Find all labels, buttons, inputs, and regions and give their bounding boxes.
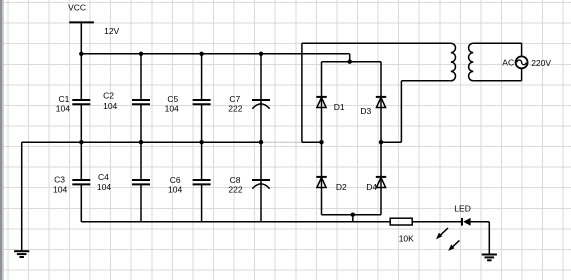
capacitor C6 104 xyxy=(168,142,211,222)
capacitor C3 104 xyxy=(53,142,90,222)
svg-text:222: 222 xyxy=(228,104,242,114)
svg-text:D1: D1 xyxy=(334,102,345,112)
left window edge strip xyxy=(0,0,2,280)
capacitor C2 104 xyxy=(103,54,150,142)
junction bridge top rail xyxy=(348,60,352,64)
diode D2 xyxy=(316,177,347,192)
wire bridge right rail xyxy=(380,62,382,215)
junction top bus / C1 xyxy=(79,52,83,56)
svg-text:104: 104 xyxy=(168,184,182,194)
wire bottom bus xyxy=(81,215,390,222)
capacitor C8 222 (polarized) xyxy=(228,142,270,222)
wire resistor to LED xyxy=(412,221,462,223)
junction top bus / C7 xyxy=(259,52,263,56)
wire bridge bottom rail xyxy=(322,214,382,216)
svg-text:10K: 10K xyxy=(399,233,414,243)
capacitor C5 104 xyxy=(165,54,211,142)
label 12V node xyxy=(104,26,119,36)
junction mid bus / C7 xyxy=(259,140,263,144)
svg-text:VCC: VCC xyxy=(68,2,86,12)
junction top bus / C2 xyxy=(139,52,143,56)
LED light arrow 2 xyxy=(448,240,459,251)
svg-text:C6: C6 xyxy=(170,175,181,185)
junction mid bus / C1 xyxy=(79,140,83,144)
ground (right) xyxy=(482,255,497,261)
ground (left) xyxy=(14,251,29,257)
wire mid bus xyxy=(22,141,322,143)
power flag VCC xyxy=(68,2,94,22)
svg-text:C8: C8 xyxy=(230,175,241,185)
svg-text:AC: AC xyxy=(502,57,514,67)
resistor 10K xyxy=(390,218,414,243)
capacitor C7 222 (polarized) xyxy=(228,54,270,142)
svg-text:C1: C1 xyxy=(59,94,70,104)
svg-text:12V: 12V xyxy=(104,26,119,36)
wire primary loop xyxy=(473,43,521,81)
svg-text:C4: C4 xyxy=(98,172,109,182)
junction mid bus / bridge left rail xyxy=(319,140,323,144)
svg-text:104: 104 xyxy=(103,101,117,111)
svg-text:LED: LED xyxy=(454,203,471,213)
wire bridge left rail xyxy=(321,62,323,215)
svg-text:C5: C5 xyxy=(167,94,178,104)
junction bridge bottom rail xyxy=(351,213,355,217)
svg-text:C3: C3 xyxy=(54,175,65,185)
svg-text:D2: D2 xyxy=(336,182,347,192)
transformer T1 secondary winding xyxy=(451,43,456,81)
wire top bus xyxy=(81,54,349,62)
junction top bus / C5 xyxy=(199,52,203,56)
svg-text:222: 222 xyxy=(228,184,242,194)
svg-text:104: 104 xyxy=(165,104,179,114)
svg-text:104: 104 xyxy=(97,182,111,192)
svg-text:104: 104 xyxy=(53,185,67,195)
wire left ground drop xyxy=(21,142,23,251)
svg-text:C2: C2 xyxy=(103,91,114,101)
svg-text:220V: 220V xyxy=(531,58,551,68)
junction mid bus / C2 xyxy=(139,140,143,144)
diode D4 xyxy=(366,177,386,192)
wire secondary top (mid bus to transformer) xyxy=(302,43,451,142)
svg-text:104: 104 xyxy=(56,104,70,114)
diode D3 xyxy=(360,97,386,116)
capacitor C1 104 xyxy=(56,54,91,142)
wire secondary bottom (right rail to transformer) xyxy=(381,81,451,142)
diode D1 xyxy=(316,97,345,112)
transformer T1 primary winding xyxy=(469,43,474,81)
junction mid bus / C5 xyxy=(199,140,203,144)
svg-text:D4: D4 xyxy=(366,182,377,192)
wire bridge top rail xyxy=(322,61,382,63)
svg-text:D3: D3 xyxy=(360,106,371,116)
wire LED to ground xyxy=(470,222,489,255)
svg-text:C7: C7 xyxy=(229,94,240,104)
LED light arrow 1 xyxy=(436,228,448,239)
capacitor C4 104 xyxy=(97,142,150,222)
wire VCC stem xyxy=(80,22,82,53)
junction mid bus / right rail xyxy=(379,140,383,144)
LED xyxy=(454,203,471,225)
AC source 220V xyxy=(502,56,551,68)
